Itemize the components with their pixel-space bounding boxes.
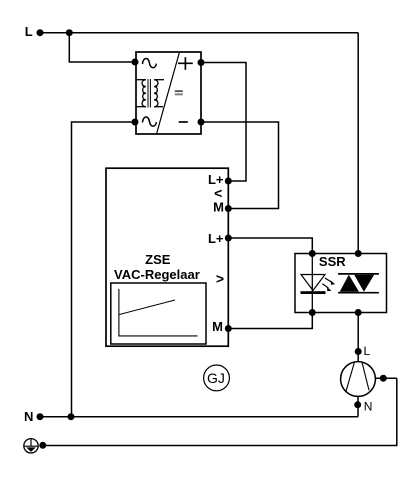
sine symbol bottom (AC) [142,117,156,126]
node L terminal dot [37,29,44,36]
svg-text:ZSE: ZSE [145,252,171,267]
power supply terminal + [198,59,205,66]
wire motor right to earth rail [43,378,397,445]
svg-text:VAC-Regelaar: VAC-Regelaar [114,267,200,282]
regulator terminal M top [225,205,232,212]
pin label > [216,271,224,287]
LED light arrow 1 [325,278,335,285]
power supply terminal AC top [132,59,139,66]
wire - output to regulator M sense [201,122,279,209]
minus sign DC output [179,121,188,123]
svg-text:L: L [364,344,371,358]
power supply terminal AC bottom [132,119,139,126]
regulator terminal L+ out [225,235,232,242]
svg-text:N: N [364,399,373,413]
label N motor [364,399,373,413]
node N terminal dot [37,413,44,420]
wire L junction to power supply AC input top [69,33,135,62]
svg-text:M: M [213,200,224,215]
wire N rail [40,416,358,418]
svg-text:GJ: GJ [207,370,225,386]
SSR terminal ac top [355,250,362,257]
regulator U2 ZSE VAC-Regelaar box [106,168,228,346]
motor right stub [375,377,396,379]
node N (mains neutral label) [24,409,33,424]
triac triangle down [354,275,374,292]
stamp circle GJ [204,365,230,391]
svg-text:<: < [214,185,222,201]
earth terminal dot [39,442,46,449]
equals sign DC [175,90,183,95]
regulator terminal M bottom [225,325,232,332]
pin label < [214,185,222,201]
wire L rail top [40,32,358,34]
motor right terminal dot [380,375,387,382]
LED light arrow 2 [322,284,331,292]
svg-text:L+: L+ [208,231,224,246]
SSR U3 box [295,254,387,313]
characteristic graph box [111,283,206,344]
label ZSE [145,252,171,267]
wire regulator M bottom to SSR input - [228,313,312,329]
svg-text:N: N [24,409,33,424]
label L motor [364,344,371,358]
junction on L rail [66,29,73,36]
motor M1 fan circle [341,362,376,397]
transformer T1 primary winding [136,80,146,107]
LED D1 triangle [301,275,325,291]
wire right vertical from L rail down to SSR [357,33,359,254]
svg-text:M: M [212,319,223,334]
SSR terminal ac bottom [355,309,362,316]
junction on N rail [68,413,75,420]
sine symbol top (AC) [142,58,156,67]
earth symbol PE [24,439,38,453]
power supply U1 box [136,52,201,134]
label SSR [319,254,346,269]
LED D1 cathode bar [301,291,326,294]
svg-text:SSR: SSR [319,254,346,269]
wire power supply AC bottom to N rail [72,122,136,417]
power supply terminal - [198,119,205,126]
triac triangle up [340,275,359,292]
power supply diagonal divider [157,52,180,134]
wire motor bottom to N rail [357,396,359,416]
pin label L+ (supply out) [208,231,224,246]
pin label L+ (top) [208,172,224,187]
SSR terminal in- [309,309,316,316]
motor terminal N dot [354,401,361,408]
graph curve [120,300,176,315]
regulator terminal L+ top [225,178,232,185]
motor fan blades [346,362,369,391]
graph axes [119,289,198,336]
motor terminal L dot [355,348,362,355]
triac bottom bar [338,292,379,294]
SSR internal input wire [311,254,313,313]
wire SSR to motor L [357,313,359,362]
pin label M (top) [213,200,224,215]
wire + output to regulator L+ sense [201,63,246,182]
triac top bar [338,273,379,275]
label VAC-Regelaar [114,267,200,282]
svg-text:L: L [25,24,33,39]
transformer T1 secondary winding [154,80,164,107]
transformer T1 core [148,79,150,108]
SSR terminal in+ [309,250,316,257]
svg-text:>: > [216,271,224,287]
wire regulator L+ out to SSR input + [228,238,312,254]
node L (mains live label) [25,24,33,39]
pin label M (bottom) [212,319,223,334]
plus sign DC output [178,57,193,69]
